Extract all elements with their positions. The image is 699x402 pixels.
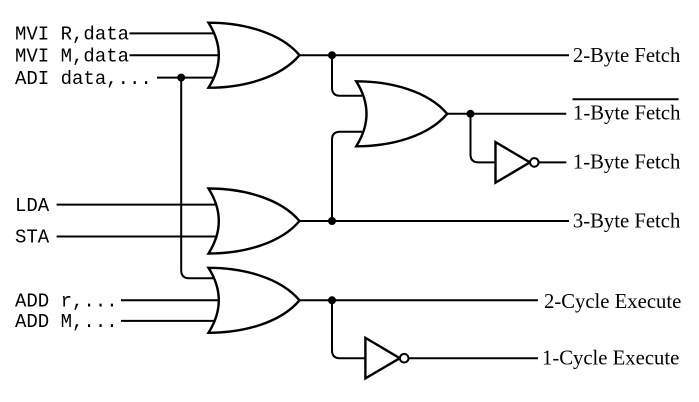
svg-text:1-Byte Fetch: 1-Byte Fetch [573, 103, 681, 125]
node J2 [467, 110, 475, 118]
wire J2 down to inverter N1 [471, 114, 497, 163]
wire OR1 output to 2-Byte Fetch [297, 54, 569, 56]
node J1 [328, 51, 336, 59]
svg-text:ADI data,...: ADI data,... [15, 68, 152, 90]
wire N1 output to 1-Byte Fetch [539, 161, 567, 163]
wire J4 down to inverter N2 [332, 300, 366, 358]
wire MVI R,data to OR1 [130, 32, 217, 34]
svg-text:MVI M,data: MVI M,data [15, 45, 129, 67]
wire ADI branch down to OR4 input [181, 78, 215, 279]
wire N2 output to 1-Cycle Execute [409, 357, 538, 359]
wire OR4 output to 2-Cycle Execute [296, 299, 538, 301]
svg-text:ADD r,...: ADD r,... [15, 291, 118, 313]
svg-text:ADD M,...: ADD M,... [15, 311, 118, 333]
svg-text:LDA: LDA [15, 195, 50, 217]
svg-text:1-Cycle Execute: 1-Cycle Execute [542, 348, 679, 370]
node J4 [328, 296, 336, 304]
or-gate G4 (ADD -> 2-Cycle Execute) [209, 268, 300, 333]
svg-text:MVI R,data: MVI R,data [15, 24, 129, 46]
inverter N2 (1-Cycle Execute) [365, 338, 408, 379]
svg-text:2-Byte Fetch: 2-Byte Fetch [573, 45, 681, 67]
wire MVI M,data to OR1 [130, 54, 222, 56]
wire OR2 output to 1-Byte Fetch (overline) [445, 113, 566, 115]
wire ADD M to OR4 [121, 320, 218, 322]
wire OR3 output to 3-Byte Fetch [296, 220, 569, 222]
wire J1 down to OR2 upper input [332, 55, 362, 96]
svg-text:1-Byte Fetch: 1-Byte Fetch [573, 152, 681, 174]
svg-text:2-Cycle Execute: 2-Cycle Execute [544, 291, 681, 313]
overline for 1-Byte Fetch [573, 98, 679, 100]
wire J3 up to OR2 lower input [332, 132, 362, 221]
or-gate G1 (MVI/ADI -> 2-Byte Fetch) [209, 23, 300, 88]
svg-text:STA: STA [15, 227, 50, 249]
or-gate G2 (-> 1-Byte Fetch) [356, 81, 447, 146]
wire ADD r to OR4 [121, 299, 221, 301]
inverter N1 (1-Byte Fetch) [496, 142, 539, 183]
or-gate G3 (LDA/STA -> 3-Byte Fetch) [209, 189, 300, 254]
wire ADI data to OR1 [157, 77, 218, 79]
wire STA to OR3 [57, 236, 221, 238]
node ADI branch junction [177, 74, 185, 82]
node J3 [328, 217, 336, 225]
wire LDA to OR3 [57, 204, 216, 206]
svg-text:3-Byte Fetch: 3-Byte Fetch [573, 210, 681, 232]
